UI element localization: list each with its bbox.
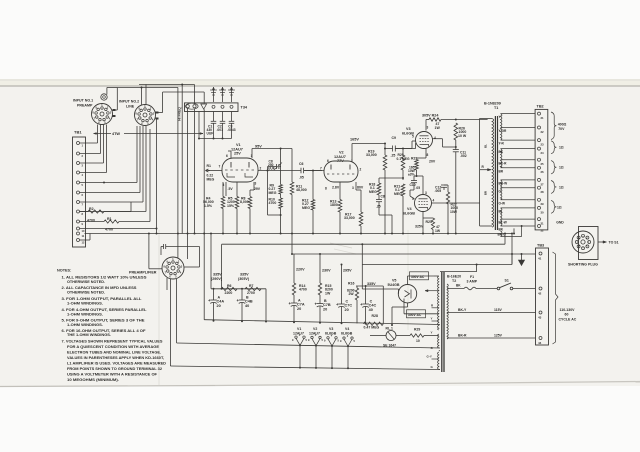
svg-text:BL: BL xyxy=(484,144,488,148)
svg-text:1800: 1800 xyxy=(330,203,338,207)
svg-text:1W: 1W xyxy=(325,291,331,295)
svg-text:0.1 MEG: 0.1 MEG xyxy=(397,157,410,161)
BK-G wire from T1 xyxy=(513,228,515,233)
wire BK-R 125V xyxy=(447,337,536,339)
svg-text:25: 25 xyxy=(541,162,545,166)
coupling wire to V3 with capacitor C9 .25 xyxy=(385,148,393,150)
svg-text:INPUT NO.1: INPUT NO.1 xyxy=(73,99,93,103)
V1 cathode wires xyxy=(225,182,227,196)
svg-text:1Ω: 1Ω xyxy=(559,186,564,190)
cable dimension 4TW xyxy=(94,133,112,135)
resistor R26 1000 10W xyxy=(454,123,458,140)
ground bus main xyxy=(85,233,513,235)
svg-text:31: 31 xyxy=(541,222,545,226)
svg-text:6: 6 xyxy=(226,154,228,158)
svg-text:4. FOR 4-OHM OUTPUT, SERIES PA: 4. FOR 4-OHM OUTPUT, SERIES PARALLEL xyxy=(62,308,148,312)
svg-text:TB1: TB1 xyxy=(74,130,82,135)
svg-text:95V: 95V xyxy=(255,145,262,149)
svg-text:SHORTING PLUG: SHORTING PLUG xyxy=(568,263,598,267)
brace 1 ohm c xyxy=(551,181,556,194)
wire 335V to V5 xyxy=(361,244,363,289)
resistor R16 8200 2W xyxy=(356,286,358,288)
svg-text:44: 44 xyxy=(538,341,542,345)
svg-text:BK: BK xyxy=(456,284,461,288)
antenna symbols above T34 xyxy=(213,90,215,103)
shorting plug socket xyxy=(579,227,599,260)
wires socket tops xyxy=(107,87,117,89)
svg-text:0.47 MEG: 0.47 MEG xyxy=(364,325,380,329)
svg-text:V5: V5 xyxy=(392,279,396,283)
tube V4 6L6GB xyxy=(415,195,432,212)
svg-text:7. VOLTAGES SHOWN REPRESENT TY: 7. VOLTAGES SHOWN REPRESENT TYPICAL VALU… xyxy=(62,339,163,343)
capacitor C6 .05 xyxy=(300,168,302,174)
svg-text:C8: C8 xyxy=(381,195,385,199)
svg-text:4TW: 4TW xyxy=(112,132,120,136)
capacitor C8 250 UUF xyxy=(268,166,277,168)
svg-text:MEG: MEG xyxy=(369,190,377,194)
svg-text:MEG: MEG xyxy=(394,192,402,196)
svg-text:41: 41 xyxy=(538,257,542,261)
V1 output wire to C6 xyxy=(258,170,301,172)
resistor R21 0.1 MEG xyxy=(401,184,405,196)
resistor R11 48,000 xyxy=(291,149,293,183)
svg-text:R28: R28 xyxy=(372,314,378,318)
svg-text:7: 7 xyxy=(219,165,221,169)
svg-text:3: 3 xyxy=(255,182,257,186)
wire to T34 triangle xyxy=(163,91,205,93)
capacitor C1 430 UUF xyxy=(213,112,215,122)
svg-text:4: 4 xyxy=(434,136,436,140)
svg-text:3: 3 xyxy=(352,186,354,190)
svg-text:R29: R29 xyxy=(414,328,420,332)
resistor R9 0.27 MEG xyxy=(280,149,282,185)
svg-text:20: 20 xyxy=(217,304,221,308)
svg-text:BK-R: BK-R xyxy=(499,161,508,165)
svg-text:20: 20 xyxy=(297,307,301,311)
capacitor C11 .002 xyxy=(453,149,459,151)
svg-text:PREAMPLIFIER: PREAMPLIFIER xyxy=(129,271,157,275)
svg-text:29: 29 xyxy=(541,202,545,206)
svg-text:.001: .001 xyxy=(217,128,224,132)
svg-text:2W: 2W xyxy=(349,292,355,296)
svg-text:10 MEGOHMS (MINIMUM).: 10 MEGOHMS (MINIMUM). xyxy=(67,378,119,382)
C1-C3 common wire xyxy=(199,138,232,140)
svg-text:GND: GND xyxy=(556,221,564,225)
V2 grid wire xyxy=(304,170,324,172)
svg-text:15%: 15% xyxy=(227,204,235,208)
svg-text:1W: 1W xyxy=(435,229,441,233)
svg-text:Y-GR: Y-GR xyxy=(499,129,507,133)
svg-text:B-1N8209: B-1N8209 xyxy=(484,102,501,106)
svg-text:G-Y: G-Y xyxy=(427,355,432,359)
svg-text:VALUES IN PARENTHESES APPLY WH: VALUES IN PARENTHESES APPLY WHEN KD-1660… xyxy=(67,356,164,360)
svg-text:115V: 115V xyxy=(494,308,502,312)
V5 cathode wire 335V xyxy=(398,289,400,294)
svg-text:22: 22 xyxy=(541,130,545,134)
heater bus lower xyxy=(170,366,440,370)
wire BK-Y 115V xyxy=(447,312,536,314)
svg-text:C9: C9 xyxy=(392,136,397,140)
svg-text:5: 5 xyxy=(412,135,414,139)
page bottom edge xyxy=(0,386,215,387)
svg-text:165V: 165V xyxy=(350,138,359,142)
svg-text:43: 43 xyxy=(538,316,542,320)
svg-text:UUF: UUF xyxy=(268,167,275,171)
220V column R14 4700 C7A 20 xyxy=(293,254,295,283)
svg-text:.0043: .0043 xyxy=(227,128,235,132)
heater bus upper xyxy=(177,343,440,348)
svg-text:335V: 335V xyxy=(367,282,376,286)
terminal strip T34 xyxy=(185,103,239,112)
svg-text:T2: T2 xyxy=(452,279,456,283)
svg-text:R1: R1 xyxy=(107,217,112,221)
resistor R13 1800 xyxy=(338,200,342,213)
svg-text:RL.1: RL.1 xyxy=(386,327,393,331)
V1 plate wires xyxy=(230,151,232,158)
svg-text:125V: 125V xyxy=(494,334,503,338)
svg-text:BK-R: BK-R xyxy=(458,334,467,338)
TB1 wires to input sockets xyxy=(80,142,98,144)
svg-text:BR: BR xyxy=(484,191,488,195)
V2 plate wire 165V xyxy=(351,144,353,162)
svg-text:O-W: O-W xyxy=(499,201,506,205)
svg-text:10: 10 xyxy=(416,339,420,343)
svg-text:TB3: TB3 xyxy=(537,244,544,248)
T1 center tap R xyxy=(480,169,491,171)
svg-text:8,000: 8,000 xyxy=(240,200,249,204)
svg-text:LINE: LINE xyxy=(126,104,135,108)
svg-text:.5V: .5V xyxy=(228,187,234,191)
V3 cathode wire xyxy=(425,149,427,159)
svg-text:TB2: TB2 xyxy=(537,105,544,109)
svg-text:.05: .05 xyxy=(416,186,421,190)
svg-text:BL: BL xyxy=(499,210,503,214)
svg-text:70V: 70V xyxy=(558,127,565,131)
svg-text:C6: C6 xyxy=(299,162,304,166)
svg-text:20: 20 xyxy=(345,308,349,312)
T2 left windings xyxy=(438,276,439,330)
svg-text:48,000: 48,000 xyxy=(296,188,307,192)
svg-text:5. FOR 9-OHM OUTPUT, SERIES 3: 5. FOR 9-OHM OUTPUT, SERIES 3 OF THE xyxy=(62,318,146,322)
svg-text:MEG: MEG xyxy=(207,177,215,181)
V5 lower wire boxed 300V AC xyxy=(403,303,405,314)
T1 primary winding xyxy=(479,118,481,226)
svg-text:3: 3 xyxy=(425,191,427,195)
heater symbols xyxy=(295,336,297,338)
svg-text:Y: Y xyxy=(431,317,433,321)
svg-text:25V: 25V xyxy=(234,152,241,156)
filter wire xyxy=(211,288,266,290)
svg-text:BR-W: BR-W xyxy=(499,182,508,186)
svg-text:24: 24 xyxy=(541,151,545,155)
svg-text:.25: .25 xyxy=(376,205,381,209)
svg-text:R2: R2 xyxy=(89,207,94,211)
V4 grid wire xyxy=(410,196,415,199)
svg-text:1.5%: 1.5% xyxy=(204,204,213,208)
svg-text:USING A VOLTMETER WITH A RESIS: USING A VOLTMETER WITH A RESISTANCE OF xyxy=(67,372,158,376)
electrolytic C4B 40 xyxy=(241,296,243,300)
T1 core xyxy=(494,116,496,230)
svg-text:20: 20 xyxy=(323,307,327,311)
svg-text:MEG: MEG xyxy=(302,206,310,210)
svg-text:BK: BK xyxy=(499,228,504,232)
TB3 brace 110-130V 60 CYCLE AC xyxy=(553,252,559,344)
V3 grid wire xyxy=(395,148,415,150)
V5 return wire xyxy=(407,303,409,307)
svg-text:27: 27 xyxy=(541,182,545,186)
capacitor C2 .001 xyxy=(222,112,224,122)
svg-text:R25: R25 xyxy=(426,220,432,224)
potentiometer R1 0.22 MEG xyxy=(203,109,205,320)
resistor R4 56,000 1.5% xyxy=(222,182,224,197)
T1 lead BK-G jog xyxy=(501,236,522,238)
svg-text:MEG: MEG xyxy=(269,191,277,195)
svg-text:±3%: ±3% xyxy=(408,173,415,177)
svg-text:10W: 10W xyxy=(450,210,458,214)
svg-text:20V: 20V xyxy=(429,160,436,164)
svg-text:33,000: 33,000 xyxy=(366,153,377,157)
wire TB1-10 xyxy=(80,228,157,230)
filter supply riser xyxy=(210,234,212,289)
preamp socket wires down xyxy=(169,279,171,366)
page top edge xyxy=(0,85,640,87)
resistor R10 4700 xyxy=(280,194,282,198)
svg-text:.005: .005 xyxy=(435,189,442,193)
svg-text:T1: T1 xyxy=(494,106,498,110)
TO S1 arrow xyxy=(598,241,607,243)
relay RL1 SE 1647 xyxy=(370,335,386,337)
electrolytic C4A 20 xyxy=(213,296,215,300)
V3 screen wire xyxy=(433,138,443,140)
T2 right windings xyxy=(447,284,448,339)
svg-text:6: 6 xyxy=(327,159,329,163)
wire S1 upper xyxy=(440,271,477,273)
svg-text:BR: BR xyxy=(499,169,504,173)
svg-text:ELECTRON TUBES AND NOMINAL LIN: ELECTRON TUBES AND NOMINAL LINE VOLTAGE. xyxy=(67,350,161,354)
svg-text:.002: .002 xyxy=(460,154,467,158)
svg-text:7: 7 xyxy=(320,167,322,171)
brace 1 ohm b xyxy=(551,161,556,174)
switch S1 xyxy=(497,287,500,290)
capacitor C10 .05 xyxy=(413,176,415,181)
svg-text:30: 30 xyxy=(541,210,545,214)
resistor R17 33,000 xyxy=(359,212,363,226)
svg-text:3. FOR 1-OHM OUTPUT, PARALLEL: 3. FOR 1-OHM OUTPUT, PARALLEL ALL xyxy=(62,297,143,301)
svg-text:1W: 1W xyxy=(435,126,441,130)
svg-text:R23: R23 xyxy=(411,157,417,161)
svg-text:23: 23 xyxy=(541,143,545,147)
T1 secondary windings xyxy=(501,114,502,141)
svg-text:40: 40 xyxy=(369,308,373,312)
svg-text:1Ω: 1Ω xyxy=(557,206,562,210)
svg-text:HI FREQ: HI FREQ xyxy=(178,107,182,121)
295V column C7C 20 xyxy=(341,265,343,273)
svg-text:(305V): (305V) xyxy=(238,277,250,281)
svg-text:110-130V: 110-130V xyxy=(560,308,576,312)
svg-text:1-OHM WINDINGS.: 1-OHM WINDINGS. xyxy=(67,301,103,305)
svg-text:L1 AMPLIFIER IS USED. VOLTAGES: L1 AMPLIFIER IS USED. VOLTAGES ARE MEASU… xyxy=(67,361,166,365)
svg-text:OTHERWISE NOTED.: OTHERWISE NOTED. xyxy=(67,280,105,284)
capacitor above preamp socket xyxy=(160,247,162,256)
resistor R5 1200 15% xyxy=(236,182,238,197)
svg-text:UUF: UUF xyxy=(207,132,214,136)
resistor R29 10 xyxy=(396,335,410,337)
svg-text:(290V): (290V) xyxy=(211,277,223,281)
capacitor C8b .25 xyxy=(378,195,380,200)
brace 1 ohm a xyxy=(551,141,556,154)
svg-text:10 W: 10 W xyxy=(458,134,467,138)
resistor R27 1000 10W xyxy=(447,185,449,192)
svg-text:SE 1647: SE 1647 xyxy=(383,344,396,348)
bus B 335V rail xyxy=(222,243,505,245)
svg-text:FROM POINTS SHOWN TO GROUND TE: FROM POINTS SHOWN TO GROUND TERMINAL 32 xyxy=(67,367,162,371)
svg-text:Y-R: Y-R xyxy=(499,142,505,146)
svg-text:F1: F1 xyxy=(470,275,474,279)
svg-text:2700: 2700 xyxy=(247,291,255,295)
svg-text:BK: BK xyxy=(499,150,504,154)
svg-text:21: 21 xyxy=(541,116,545,120)
svg-text:26: 26 xyxy=(541,170,545,174)
svg-text:R16: R16 xyxy=(348,282,354,286)
socket stub blobs xyxy=(113,109,116,111)
svg-text:OTHERWISE NOTED.: OTHERWISE NOTED. xyxy=(67,291,105,295)
resistor R1 4700 xyxy=(80,221,105,223)
svg-text:1Ω: 1Ω xyxy=(559,145,564,149)
svg-text:300V AC: 300V AC xyxy=(408,313,422,317)
capacitor C12 .005 xyxy=(444,184,448,186)
resistor R8 8,000 xyxy=(248,197,252,209)
resistor R18 0.1 MEG xyxy=(378,178,380,183)
230V column R15 8200 1W C7B 20 xyxy=(319,254,321,283)
svg-text:295V: 295V xyxy=(343,269,352,273)
svg-text:2: 2 xyxy=(260,167,262,171)
svg-text:TO S1: TO S1 xyxy=(609,241,619,245)
svg-text:8: 8 xyxy=(427,153,429,157)
svg-text:32: 32 xyxy=(541,228,545,232)
svg-text:40: 40 xyxy=(245,304,249,308)
brace 400 ohm 70V xyxy=(551,112,556,140)
phono jack J1 xyxy=(101,94,107,100)
T2 left tap wires xyxy=(437,275,440,277)
svg-text:2.8V: 2.8V xyxy=(332,186,340,190)
ground symbol near TB3 xyxy=(521,253,523,255)
T1 secondary leads to TB2 xyxy=(501,113,536,115)
svg-text:300V AC: 300V AC xyxy=(411,275,425,279)
resistor R12 0.27 MEG xyxy=(312,170,314,172)
svg-text:80V: 80V xyxy=(357,186,364,190)
brace 1 ohm d xyxy=(551,200,556,213)
svg-text:2. ALL CAPACITANCE IN MFD UNLE: 2. ALL CAPACITANCE IN MFD UNLESS xyxy=(62,286,137,290)
335V column C4C 40 xyxy=(356,285,383,287)
svg-text:1Ω: 1Ω xyxy=(559,166,564,170)
resistor R19 33,000 xyxy=(384,144,386,156)
svg-text:INPUT NO.2: INPUT NO.2 xyxy=(119,100,139,104)
bus C to TB3-41 xyxy=(292,253,536,255)
resistor R20 0.1 MEG xyxy=(402,148,404,150)
svg-text:2: 2 xyxy=(360,168,362,172)
svg-text:3: 3 xyxy=(427,126,429,130)
long vertical wire bundle xyxy=(156,118,157,120)
svg-text:B-16E20: B-16E20 xyxy=(447,275,461,279)
svg-text:28: 28 xyxy=(541,190,545,194)
svg-text:T34: T34 xyxy=(241,106,248,110)
V4 plate wire xyxy=(432,202,480,204)
svg-text:4: 4 xyxy=(433,199,435,203)
svg-text:4700: 4700 xyxy=(269,201,277,205)
svg-text:1-OHM WINDINGS.: 1-OHM WINDINGS. xyxy=(67,313,103,317)
svg-text:8: 8 xyxy=(325,187,327,191)
capacitor C3 .0043 xyxy=(231,112,233,122)
svg-text:5U4GB: 5U4GB xyxy=(388,283,400,287)
wire TB1-12 stub xyxy=(80,239,91,241)
svg-text:325V: 325V xyxy=(415,225,424,229)
resistor R2 4700 xyxy=(80,211,89,213)
ground bus electrolytics xyxy=(204,320,440,325)
svg-text:BL-W: BL-W xyxy=(499,221,507,225)
svg-text:29V: 29V xyxy=(254,187,261,191)
svg-text:220V: 220V xyxy=(296,268,305,272)
bus D xyxy=(362,264,512,266)
svg-text:R1: R1 xyxy=(207,164,212,168)
T2 heater taps xyxy=(439,350,440,352)
svg-text:PREAMP: PREAMP xyxy=(77,103,93,107)
fuse F1 3 AMP xyxy=(447,288,464,290)
svg-text:FOR A QUIESCENT CONDITION WITH: FOR A QUIESCENT CONDITION WITH AVERAGE xyxy=(67,345,159,349)
page fold lines xyxy=(158,230,160,385)
svg-text:NOTES:: NOTES: xyxy=(57,268,71,272)
svg-text:33,000: 33,000 xyxy=(344,216,355,220)
boxed label 300V AC upper xyxy=(408,275,435,277)
svg-text:1-OHM WINDINGS.: 1-OHM WINDINGS. xyxy=(67,323,103,327)
svg-text:THE 1-OHM WINDINGS.: THE 1-OHM WINDINGS. xyxy=(67,333,111,337)
svg-text:1. ALL RESISTORS 1/2 WATT 10%: 1. ALL RESISTORS 1/2 WATT 10% UNLESS xyxy=(62,276,148,280)
svg-text:4700: 4700 xyxy=(299,288,307,292)
svg-text:42: 42 xyxy=(538,292,542,296)
svg-text:CYCLE AC: CYCLE AC xyxy=(559,317,577,321)
svg-text:3 AMP: 3 AMP xyxy=(467,280,478,284)
svg-text:.05: .05 xyxy=(299,176,304,180)
svg-text:6L6GB: 6L6GB xyxy=(403,211,415,215)
preamp socket wire left xyxy=(149,268,162,270)
svg-text:230V: 230V xyxy=(322,269,331,273)
svg-text:.25: .25 xyxy=(391,154,396,158)
svg-text:Y: Y xyxy=(431,331,433,335)
svg-text:BK-Y: BK-Y xyxy=(458,308,467,312)
svg-text:S1: S1 xyxy=(505,279,509,283)
svg-text:305V R24: 305V R24 xyxy=(422,114,439,118)
long wires from T34 jacks xyxy=(187,108,189,259)
svg-text:2200: 2200 xyxy=(225,291,233,295)
T2 core xyxy=(441,272,443,372)
svg-text:60: 60 xyxy=(565,313,569,317)
V2 cathode wires xyxy=(339,182,341,200)
